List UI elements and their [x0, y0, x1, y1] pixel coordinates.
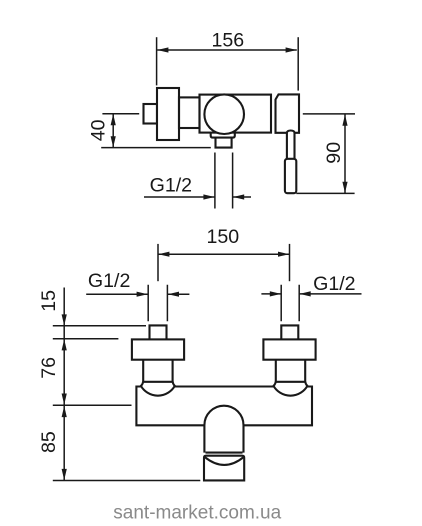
svg-text:76: 76 — [38, 357, 60, 379]
arrowhead 150 right — [278, 252, 289, 257]
escutcheon right — [263, 339, 315, 359]
dimension 150 line — [158, 253, 289, 255]
arrowhead G1/2 bottom-right pointing left — [300, 291, 311, 296]
extension lines G1/2 bottom-right — [281, 285, 299, 322]
extension lines G1/2 bottom-left — [148, 285, 167, 322]
extension line 40 bottom — [101, 147, 211, 149]
arrowhead G1/2 top right — [233, 194, 244, 199]
dimension G1/2 bottom-right line segments — [261, 293, 361, 295]
outlet thread stub (side view) — [216, 138, 232, 148]
arrowhead chain 76 down — [62, 394, 67, 405]
arrowhead chain 15 up — [62, 339, 67, 350]
spout dome and upper tube — [204, 406, 243, 453]
svg-text:156: 156 — [211, 30, 244, 52]
connector cylinder left with flare and boss arc — [141, 360, 175, 396]
dimension 90 line — [344, 115, 346, 194]
svg-text:90: 90 — [323, 142, 345, 164]
arrowhead chain 15 down — [62, 314, 67, 325]
valve body tube (side view) — [200, 95, 272, 133]
dimension G1/2 bottom-left line segments — [86, 293, 189, 295]
aerator piece — [204, 456, 244, 481]
arrowhead 156 left — [157, 47, 168, 52]
arrowhead G1/2 top left — [203, 194, 214, 199]
extension line under outlet right — [232, 153, 234, 209]
connector cylinder right with flare and boss arc — [274, 360, 308, 396]
svg-text:15: 15 — [38, 290, 60, 312]
extension line escutcheon top level — [53, 338, 119, 340]
cylinder bottom line left — [143, 381, 172, 383]
arrowhead 40 top — [111, 114, 116, 125]
dimension G1/2 top line left segment — [144, 196, 215, 198]
main body (front view) — [136, 387, 312, 426]
extension line body centre level — [53, 404, 132, 406]
svg-text:G1/2: G1/2 — [313, 273, 355, 295]
handle grip — [285, 159, 296, 193]
dimension 40 line — [112, 114, 114, 147]
wall nut (side view) — [144, 104, 158, 124]
arrowhead chain 85 up — [62, 406, 67, 417]
neck between flange and valve body — [179, 97, 200, 128]
upper tube bottom edge — [206, 452, 243, 454]
arrowhead chain bottom down — [62, 469, 67, 480]
svg-text:150: 150 — [206, 226, 239, 248]
escutcheon left — [132, 339, 184, 359]
extension line stub top level — [53, 325, 146, 327]
inlet thread stub right (front view) — [281, 325, 298, 339]
arrowhead 156 right — [286, 47, 297, 52]
aerator top shallow arc — [205, 457, 244, 465]
svg-text:sant-market.com.ua: sant-market.com.ua — [113, 503, 281, 524]
extension line 150 left — [157, 244, 159, 281]
dimension 156 line — [157, 49, 297, 51]
extension line 40 top — [102, 113, 139, 115]
svg-text:85: 85 — [38, 431, 60, 453]
arrowhead G1/2 bottom-right pointing right — [270, 291, 281, 296]
extension line 150 right — [289, 244, 291, 281]
arrowhead 150 left — [158, 252, 169, 257]
extension line left of 156 — [156, 37, 158, 85]
arrowhead G1/2 bottom-left pointing right — [137, 292, 148, 297]
cylinder bottom line right — [276, 381, 305, 383]
handle lever arm — [287, 131, 295, 159]
arrowhead 90 bottom — [342, 182, 347, 193]
outlet flange under circle — [211, 133, 235, 138]
extension line spout bottom level — [53, 480, 201, 482]
cartridge circle — [204, 94, 244, 134]
extension line 90 bottom — [296, 192, 354, 194]
svg-text:G1/2: G1/2 — [150, 175, 192, 197]
svg-text:40: 40 — [88, 119, 110, 141]
svg-text:G1/2: G1/2 — [88, 270, 130, 292]
arrowhead 40 bottom — [111, 136, 116, 147]
extension line 90 top — [303, 113, 355, 115]
left chain dimension line — [63, 288, 65, 481]
extension line under outlet left — [214, 153, 216, 209]
body top line segment between bosses — [175, 385, 274, 387]
extension line right of 156 — [297, 37, 299, 90]
arrowhead 90 top — [342, 115, 347, 126]
right end cap — [276, 94, 300, 132]
dimension G1/2 top line right segment — [233, 196, 251, 198]
inlet thread stub left (front view) — [150, 325, 167, 339]
wall flange (side view) — [157, 88, 179, 140]
arrowhead G1/2 bottom-left pointing left — [168, 292, 179, 297]
